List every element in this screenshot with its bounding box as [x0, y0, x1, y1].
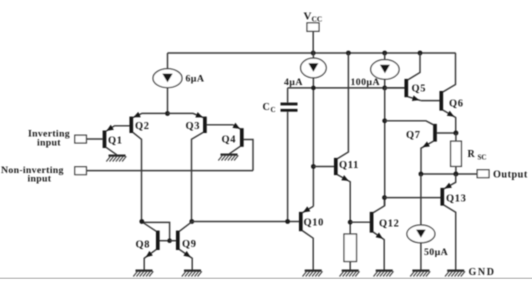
ground Q8 emitter [133, 271, 153, 277]
svg-text:Q12: Q12 [379, 219, 400, 230]
capacitor Cc [281, 88, 298, 222]
node rail junction dot Q5 branch [418, 51, 423, 56]
transistor Q3 [168, 112, 234, 221]
transistor Q7 [385, 121, 456, 174]
transistor Q5 [385, 53, 421, 101]
transistor Q1 [105, 125, 131, 155]
current source 4uA [301, 53, 327, 206]
svg-text:Q3: Q3 [186, 121, 201, 132]
svg-text:SC: SC [478, 154, 487, 162]
svg-text:Q11: Q11 [339, 160, 359, 171]
bottom page rule [0, 278, 532, 280]
ground Q1 collector [106, 156, 126, 162]
svg-text:4µA: 4µA [284, 77, 303, 88]
transistor Q4 [229, 123, 253, 171]
node rail junction dot 100uA branch [382, 51, 387, 56]
terminal pad output [477, 170, 489, 178]
ground Q12 emitter [374, 271, 394, 277]
svg-text:C: C [263, 102, 270, 113]
svg-text:C: C [271, 106, 276, 114]
svg-text:V: V [304, 11, 312, 23]
transistor Q6 [421, 53, 456, 133]
svg-text:GND: GND [469, 267, 496, 278]
svg-text:Q5: Q5 [412, 84, 427, 95]
svg-text:Q13: Q13 [446, 194, 467, 205]
node dot 50uA output junction [419, 172, 424, 177]
svg-text:Q9: Q9 [182, 239, 197, 250]
svg-text:Q8: Q8 [136, 240, 151, 251]
ground Q4 collector [218, 155, 238, 161]
resistor Rsc [451, 133, 462, 174]
transistor Q13 [442, 174, 455, 270]
wire Q11 base [313, 166, 334, 168]
node dot 100uA to Q5 base [382, 86, 387, 91]
svg-text:input: input [37, 138, 61, 149]
svg-text:100µA: 100µA [351, 77, 380, 88]
node dot Q6 emitter Rsc junction [453, 131, 458, 136]
terminal pad non-inverting input [75, 167, 87, 175]
ground Q13 emitter [445, 271, 465, 277]
wire Vcc pad to rail [312, 31, 314, 53]
node dot Q9 collector [189, 219, 194, 224]
transistor Q12 [350, 198, 384, 271]
node tail current junction [165, 111, 170, 116]
ground 50uA [410, 271, 430, 277]
wire non-inverting input to Q4 base riser [86, 170, 253, 172]
wire Q8 diode link base to collector [142, 222, 170, 240]
node rail junction dot at Vcc [311, 51, 316, 56]
current source 50uA [407, 174, 435, 270]
ground Q9 emitter [182, 271, 202, 277]
svg-text:Q2: Q2 [135, 121, 150, 132]
wire 100uA branch down [384, 88, 386, 206]
ground Q10 [303, 271, 323, 277]
svg-text:50µA: 50µA [424, 247, 448, 258]
node dot Q13 base junction [382, 195, 387, 200]
svg-text:R: R [468, 149, 476, 160]
transistor Q10 [301, 206, 314, 270]
transistor Q8 [142, 222, 170, 270]
svg-text:Q10: Q10 [304, 218, 325, 229]
current source 100uA [371, 53, 399, 88]
transistor Q2 [131, 112, 167, 222]
transistor Q9 [170, 222, 193, 270]
node dot Rsc output junction [453, 172, 458, 177]
transistor Q11 [336, 53, 350, 234]
current source 6uA [153, 53, 182, 114]
node dot Q8 Q9 base tie [167, 238, 172, 243]
node dot Q7 collector junction [382, 118, 387, 123]
node dot Q11 base junction [311, 164, 316, 169]
svg-text:input: input [28, 173, 52, 184]
node dot Q12 base junction [348, 220, 353, 225]
ground resistor [340, 271, 360, 277]
svg-text:Output: Output [493, 170, 528, 181]
node rail junction dot Q11 branch [346, 51, 351, 56]
wire bias node horizontal Cc to Q5 base [288, 87, 405, 89]
svg-text:Q7: Q7 [406, 130, 421, 141]
svg-text:Q6: Q6 [449, 99, 464, 110]
wire output node [421, 173, 477, 175]
node dot Q8 collector [139, 219, 144, 224]
wire input stage output to Q10 base [192, 221, 299, 223]
svg-text:6µA: 6µA [186, 74, 205, 85]
svg-text:CC: CC [312, 15, 323, 24]
wire top supply rail [168, 52, 456, 54]
Vcc terminal pad [307, 23, 319, 31]
terminal pad inverting input [75, 135, 87, 143]
resistor Q11 emitter [344, 234, 357, 270]
svg-text:Q4: Q4 [222, 135, 237, 146]
wire Q13 base [385, 197, 441, 199]
wire inverting input to Q1 base [86, 138, 103, 140]
node dot 4uA line [311, 86, 316, 91]
svg-text:Q1: Q1 [108, 136, 123, 147]
node dot Cc bottom junction [285, 219, 290, 224]
